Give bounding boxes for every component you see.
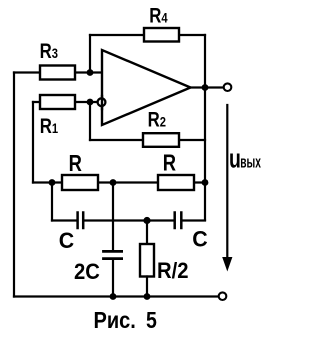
wire: op-amp output to terminal	[191, 86, 224, 88]
svg-text:Рис.: Рис.	[94, 307, 136, 334]
resistor R4	[144, 28, 179, 42]
node: R/2 bottom junction	[144, 293, 151, 300]
svg-text:R2: R2	[148, 109, 166, 132]
op-amp U1	[102, 50, 191, 125]
svg-text:вых: вых	[240, 152, 261, 171]
wire: 2C branch vertical lower	[112, 260, 114, 297]
svg-text:C: C	[192, 226, 208, 252]
wire: R row horizontal	[33, 181, 205, 183]
wire: 2C branch vertical upper	[112, 183, 114, 251]
wire: op-amp left edge over circle	[101, 96, 103, 109]
resistor R left	[62, 175, 98, 190]
op-amp inverting input circle	[98, 98, 106, 106]
wire: capacitor row horizontal	[52, 219, 205, 221]
capacitor C left	[78, 213, 84, 229]
capacitor C right	[175, 213, 182, 229]
wire: R/2 branch vertical upper	[146, 221, 148, 245]
wire: inverting junction drop to R2	[89, 102, 91, 140]
wire: left drop to capacitor row	[51, 183, 53, 221]
node: R row left junction	[49, 179, 56, 186]
resistor R2	[143, 133, 179, 147]
resistor R right	[158, 175, 194, 190]
wire: output voltage arrow	[226, 105, 228, 257]
svg-text:C: C	[59, 228, 75, 254]
wire: non-inverting input wire	[14, 71, 102, 73]
terminal: output top	[224, 83, 232, 91]
wire: R4 feedback top rail	[90, 34, 205, 36]
wire: output column vertical	[204, 35, 206, 220]
svg-text:R: R	[163, 151, 176, 176]
svg-text:R1: R1	[40, 115, 58, 138]
terminal: output bottom	[219, 292, 227, 300]
wire: input rail left vertical	[13, 73, 15, 297]
node: output junction	[202, 84, 209, 91]
wire: bottom ground rail	[14, 295, 219, 297]
node: R row right junction	[202, 179, 209, 186]
resistor R3	[40, 66, 75, 80]
svg-text:R: R	[69, 151, 82, 176]
wire: R2 bottom feedback	[90, 139, 205, 141]
capacitor 2C	[104, 251, 122, 258]
node: junction feedback/non-inverting	[87, 69, 94, 76]
svg-text:2C: 2C	[74, 259, 100, 284]
wire: R1 left drop to R row	[32, 102, 34, 183]
node: junction R2/inverting	[87, 99, 94, 106]
svg-text:u: u	[229, 143, 241, 173]
wire: R/2 branch vertical lower	[146, 277, 148, 297]
node: capacitor row middle junction	[143, 217, 150, 224]
svg-text:R/2: R/2	[157, 258, 189, 283]
wire: inverting input wire	[33, 101, 98, 103]
svg-text:R3: R3	[40, 41, 58, 64]
node: 2C bottom junction	[110, 293, 117, 300]
node: R row middle junction	[110, 179, 117, 186]
svg-text:5: 5	[146, 308, 157, 334]
svg-text:R4: R4	[149, 5, 167, 28]
resistor R1	[40, 95, 75, 109]
wire: feedback left vertical to non-inverting input	[89, 35, 91, 73]
resistor R/2	[140, 244, 154, 277]
